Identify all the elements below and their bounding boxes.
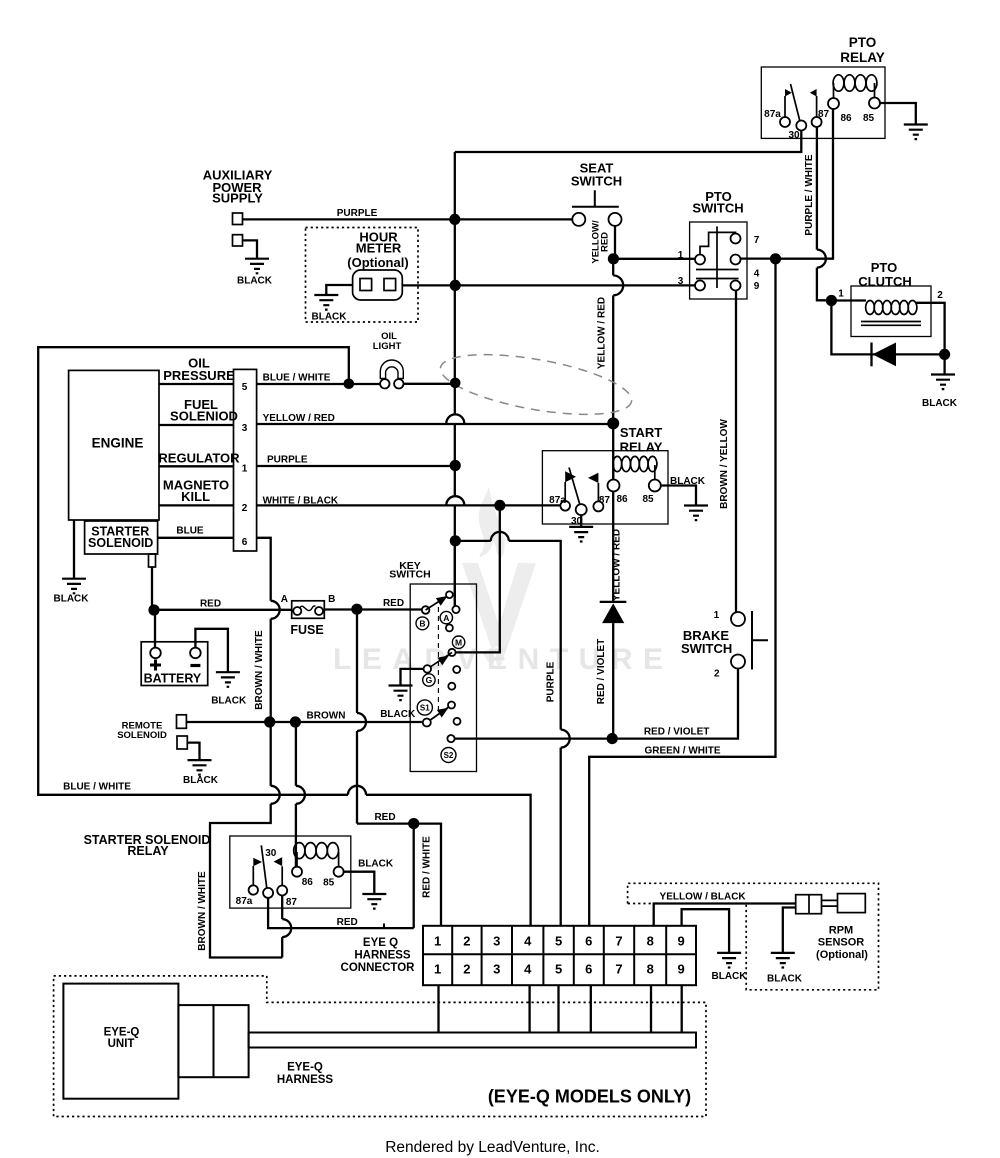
label BRAKE SWITCH: [681, 628, 732, 656]
start relay contact 87a: [560, 501, 570, 511]
svg-text:4: 4: [524, 961, 532, 976]
svg-text:2: 2: [463, 933, 470, 948]
label START RELAY: [620, 425, 663, 455]
svg-text:BLUE / WHITE: BLUE / WHITE: [63, 782, 131, 793]
key switch contact top A: [446, 591, 453, 598]
starter relay 87 flag: [281, 866, 283, 885]
label STARTER SOLENOID: [88, 525, 153, 550]
starter solenoid box: [85, 521, 158, 554]
svg-text:HARNESS: HARNESS: [354, 949, 411, 961]
svg-text:87: 87: [599, 495, 611, 506]
svg-text:3: 3: [678, 276, 684, 287]
key switch contact G: [424, 665, 432, 673]
wire purple top feed to PTO relay 30: [455, 131, 802, 153]
start relay armature: [569, 468, 580, 505]
starter relay contact 30: [263, 888, 273, 898]
svg-text:87: 87: [818, 109, 830, 120]
EYEQ models dotted box: [54, 976, 706, 1117]
svg-text:1: 1: [838, 289, 844, 300]
svg-text:YELLOW / RED: YELLOW / RED: [612, 529, 623, 601]
svg-text:LIGHT: LIGHT: [373, 341, 402, 352]
RPM sensor body: [838, 894, 866, 913]
label REMOTE SOLENOID: [117, 720, 167, 741]
svg-text:SWITCH: SWITCH: [692, 201, 743, 216]
svg-text:RED: RED: [337, 917, 358, 928]
wire seat switch down to node: [613, 226, 623, 424]
svg-text:G: G: [426, 675, 433, 685]
wire PTO4 node green/white feed down: [589, 259, 775, 926]
battery box: [141, 642, 208, 686]
key switch arrow G-M: [427, 652, 452, 669]
svg-text:BLACK: BLACK: [183, 775, 219, 786]
key switch circled S2: [441, 748, 456, 763]
svg-text:RED: RED: [374, 812, 395, 823]
svg-text:RED / VIOLET: RED / VIOLET: [596, 639, 607, 705]
svg-text:9: 9: [677, 961, 684, 976]
wire node to PTO switch pin 1: [613, 258, 695, 260]
starter relay coil terminal 85: [334, 867, 344, 877]
svg-text:RPM: RPM: [829, 925, 853, 937]
wire clutch pin2: [916, 303, 945, 355]
svg-text:3: 3: [493, 933, 500, 948]
ground RPM sensor: [771, 953, 795, 968]
node battery red junction: [148, 604, 159, 615]
key switch contact small below A: [446, 624, 453, 631]
battery + sign: [150, 660, 161, 671]
wire purple into key A contact: [454, 546, 456, 606]
starter relay contact 87: [277, 886, 287, 896]
svg-text:BLACK: BLACK: [312, 312, 348, 323]
svg-text:A: A: [443, 613, 449, 623]
PTO clutch box: [851, 286, 931, 337]
key switch contact S1 top: [448, 702, 455, 709]
PTO switch step link: [700, 232, 736, 254]
svg-text:BLACK: BLACK: [358, 858, 394, 869]
svg-text:CLUTCH: CLUTCH: [858, 274, 911, 289]
hour meter pin square right: [384, 279, 396, 291]
label EYE-Q UNIT: [104, 1026, 140, 1050]
svg-text:87a: 87a: [549, 495, 566, 506]
svg-text:85: 85: [323, 878, 335, 889]
svg-text:EYE Q: EYE Q: [363, 937, 398, 949]
svg-text:RED: RED: [383, 598, 404, 609]
wire S2 to node: [455, 737, 613, 739]
PTO switch contact 1: [695, 255, 705, 265]
wire pin 9 to ground: [682, 909, 730, 953]
svg-text:85: 85: [863, 113, 875, 124]
starter relay coil terminal 86: [292, 867, 302, 877]
wire PTO switch pin 9 brown/yellow down to brake: [735, 291, 737, 613]
wire PTO relay 85 to ground: [880, 103, 916, 125]
svg-text:PURPLE / WHITE: PURPLE / WHITE: [804, 154, 815, 235]
key switch contact mid small: [448, 683, 455, 690]
svg-text:EYE-Q: EYE-Q: [104, 1026, 140, 1038]
svg-text:2: 2: [937, 290, 943, 301]
svg-text:PTO: PTO: [849, 35, 877, 50]
label EYE Q HARNESS CONNECTOR: [341, 937, 416, 974]
key switch contact S1: [423, 719, 431, 727]
svg-text:SOLENOID: SOLENOID: [117, 730, 167, 741]
PTO switch box: [690, 222, 747, 299]
svg-text:4: 4: [754, 269, 760, 280]
dashed ellipse callout: [436, 343, 636, 426]
svg-text:BROWN / YELLOW: BROWN / YELLOW: [719, 419, 730, 509]
node brown junction right: [290, 716, 301, 727]
PTO relay armature: [791, 84, 800, 121]
wire start relay 86 down yellow/red to diode: [612, 492, 614, 602]
start relay box: [542, 451, 668, 524]
PTO relay contact 87: [812, 117, 822, 127]
svg-text:2: 2: [242, 503, 248, 514]
svg-text:HARNESS: HARNESS: [277, 1074, 334, 1086]
PTO switch contact 7: [731, 234, 741, 244]
label STARTER SOLENOID RELAY: [84, 833, 211, 858]
wire diode down red/violet: [612, 623, 614, 739]
svg-text:1: 1: [434, 961, 441, 976]
key switch contact S2: [447, 735, 454, 742]
starter relay contact 87a: [249, 885, 258, 894]
node clutch pin1 junction: [826, 295, 837, 306]
svg-text:86: 86: [616, 494, 628, 505]
wire purple to PTO switch pin 3: [455, 284, 695, 286]
svg-text:RELAY: RELAY: [840, 50, 885, 65]
svg-text:S2: S2: [444, 751, 454, 760]
svg-text:BLACK: BLACK: [670, 476, 706, 487]
svg-text:BLACK: BLACK: [54, 593, 90, 604]
svg-text:1: 1: [714, 610, 720, 621]
svg-text:1: 1: [434, 933, 441, 948]
ground PTO relay: [904, 125, 928, 140]
svg-text:SOLENIOD: SOLENIOD: [170, 408, 238, 423]
svg-text:BATTERY: BATTERY: [144, 672, 202, 686]
svg-text:3: 3: [242, 423, 248, 434]
wire brake pin2 down to red/violet: [612, 669, 738, 739]
hour meter connector body: [353, 270, 403, 300]
svg-text:PURPLE: PURPLE: [546, 661, 557, 702]
wire oil light to purple vertical: [404, 383, 456, 385]
svg-text:SENSOR: SENSOR: [818, 937, 865, 949]
oil light terminals: [380, 379, 389, 388]
svg-text:BLACK: BLACK: [237, 276, 273, 287]
wire engine loop: top edge, left edge, bottom blue/white with hops: [38, 347, 530, 926]
aux power terminal 2: [233, 235, 243, 246]
label KEY SWITCH: [389, 560, 430, 581]
svg-text:9: 9: [677, 933, 684, 948]
svg-text:BLACK: BLACK: [767, 974, 803, 985]
label PTO RELAY: [840, 35, 885, 65]
svg-text:RED / VIOLET: RED / VIOLET: [644, 727, 710, 738]
PTO relay contact 87a: [780, 117, 790, 127]
node purple/hour meter junction: [450, 280, 461, 291]
key switch circled B: [416, 617, 429, 630]
svg-text:ENGINE: ENGINE: [92, 436, 144, 451]
oil light horseshoe: [380, 360, 403, 379]
node clutch ground junction: [939, 349, 950, 360]
battery + terminal: [150, 648, 161, 659]
svg-text:SWITCH: SWITCH: [389, 569, 430, 581]
svg-text:5: 5: [555, 933, 562, 948]
node start relay 86 junction: [607, 417, 619, 429]
PTO switch center line: [716, 226, 718, 288]
node seat/PTO1 junction: [608, 253, 619, 264]
svg-text:S1: S1: [420, 704, 430, 713]
wire battery + up: [154, 610, 156, 648]
key switch arrow S1: [427, 705, 452, 723]
svg-text:BLACK: BLACK: [380, 709, 416, 720]
wire pin1 purple right: [257, 465, 456, 467]
wire purple main vertical with hops: [446, 152, 464, 606]
wire PTO relay 86 down: [776, 109, 834, 259]
svg-text:BROWN / WHITE: BROWN / WHITE: [254, 630, 265, 710]
svg-text:YELLOW / RED: YELLOW / RED: [597, 297, 608, 369]
start relay coil terminal 85: [649, 480, 661, 492]
svg-text:KILL: KILL: [181, 489, 210, 504]
PTO switch contact 3: [695, 281, 705, 291]
svg-text:BLACK: BLACK: [922, 398, 958, 409]
svg-text:METER: METER: [356, 241, 402, 256]
watermark logo flame: [479, 487, 505, 557]
wire remote solenoid brown: [186, 721, 422, 723]
battery - terminal: [190, 648, 201, 659]
fuse element: [300, 606, 316, 611]
svg-text:7: 7: [754, 235, 760, 246]
svg-text:5: 5: [242, 382, 248, 393]
svg-text:5: 5: [555, 961, 562, 976]
node aux purple junction: [449, 214, 460, 225]
seat switch actuator bar: [572, 190, 619, 207]
wire G to ground: [401, 669, 424, 686]
wire yellow/black to pin 8: [654, 904, 796, 926]
node purple pin1 junction: [450, 460, 461, 471]
svg-text:YELLOW / RED: YELLOW / RED: [263, 413, 335, 424]
svg-text:(Optional): (Optional): [816, 949, 868, 961]
label SEAT SWITCH: [571, 161, 622, 189]
key switch circled S1: [417, 700, 432, 715]
svg-text:BLUE / WHITE: BLUE / WHITE: [263, 372, 331, 383]
wire red battery to fuse: [154, 609, 292, 611]
ground key G: [389, 686, 413, 701]
wire PTO switch pin 4 to node: [741, 257, 834, 259]
wire pin5 blue/white right: [257, 383, 380, 385]
wire start relay 30 to ground: [580, 515, 582, 527]
svg-text:RELAY: RELAY: [127, 844, 169, 858]
key switch contact right small: [454, 718, 461, 725]
svg-text:RELAY: RELAY: [620, 440, 663, 455]
svg-text:2: 2: [714, 669, 720, 680]
label AUXILIARY POWER SUPPLY: [203, 167, 273, 205]
RPM sensor connector body: [796, 895, 822, 914]
remote solenoid terminal 1: [177, 715, 187, 729]
EYE-Q unit connector block: [178, 1005, 248, 1077]
svg-text:87: 87: [286, 897, 298, 908]
diode start circuit: [600, 601, 627, 603]
ground starter relay: [362, 894, 386, 909]
EYE Q connector box: [423, 926, 696, 985]
wire starter relay 30 red out: [268, 898, 414, 928]
node fuse B junction: [351, 604, 362, 615]
key switch contact M: [448, 649, 455, 656]
EYE Q connector numbers row 2: [434, 961, 685, 976]
wire aux purple to junction: [243, 218, 455, 220]
wire hour meter to purple junction: [402, 284, 455, 286]
wire starter solenoid to battery node: [151, 567, 153, 610]
ground pin 9: [717, 953, 741, 968]
key switch contact B: [422, 606, 430, 614]
svg-text:SOLENOID: SOLENOID: [88, 536, 153, 550]
key switch contact right of G: [453, 666, 460, 673]
svg-text:RED: RED: [600, 232, 611, 252]
battery - sign: [190, 664, 200, 667]
PTO relay 87 flag: [816, 96, 818, 117]
wire pin6 blue right and down: [210, 538, 282, 958]
engine box: [69, 370, 159, 520]
svg-text:FUSE: FUSE: [290, 623, 323, 637]
svg-text:BROWN / WHITE: BROWN / WHITE: [197, 871, 208, 951]
wire start relay 85 to ground: [661, 486, 696, 506]
label RPM SENSOR (Optional): [816, 925, 868, 961]
wire white/black M branch down: [456, 505, 500, 652]
svg-text:1: 1: [242, 464, 248, 475]
wire clutch to ground: [943, 354, 945, 374]
key switch box: [410, 584, 476, 772]
svg-text:A: A: [281, 594, 288, 605]
key switch circled M: [452, 636, 464, 648]
svg-text:86: 86: [302, 877, 314, 888]
wire PTO relay 87 purple/white down with hop: [817, 127, 826, 300]
svg-text:PURPLE: PURPLE: [267, 454, 308, 465]
key switch circled A: [440, 611, 452, 623]
node blue/white right junction: [450, 378, 461, 389]
svg-text:PRESSURE: PRESSURE: [163, 368, 235, 383]
wire red/white drop: [413, 824, 415, 929]
wire fuel solenoid: [159, 424, 234, 426]
starter relay armature: [261, 845, 267, 888]
svg-text:BLACK: BLACK: [712, 971, 748, 982]
ground start relay 85: [684, 506, 708, 521]
svg-text:LEADVENTURE: LEADVENTURE: [333, 643, 674, 676]
label HOUR METER (Optional): [347, 230, 408, 270]
PTO relay coil: [833, 75, 877, 99]
RPM dotted box L-shape: [628, 883, 879, 990]
wire engine ground: [73, 520, 75, 579]
svg-text:86: 86: [840, 113, 852, 124]
svg-text:PURPLE: PURPLE: [337, 208, 378, 219]
wire clutch pin1: [831, 299, 866, 301]
svg-text:2: 2: [463, 961, 470, 976]
wire blue branch with hop to purple drop: [455, 532, 569, 926]
key switch circled G: [423, 674, 435, 686]
wire blue starter solenoid to pin6: [158, 537, 234, 539]
node blue/white left junction: [344, 379, 355, 390]
wire starter relay 87 down with hop: [282, 896, 291, 958]
watermark logo V: [462, 563, 536, 670]
PTO relay contact 30: [796, 121, 806, 131]
ground engine: [62, 579, 86, 594]
starter relay coil: [294, 843, 339, 867]
start relay 87 flag: [597, 483, 599, 501]
starter relay 87a flag: [252, 866, 254, 885]
wire remote solenoid to ground: [187, 743, 199, 761]
svg-text:REGULATOR: REGULATOR: [158, 450, 240, 465]
svg-text:START: START: [620, 425, 662, 440]
label PTO SWITCH: [692, 189, 743, 216]
wire starter relay coil feed down: [296, 722, 305, 867]
svg-text:87a: 87a: [236, 896, 253, 907]
wire pin3 yellow/red to start relay: [257, 423, 614, 425]
svg-text:PTO: PTO: [871, 260, 898, 275]
wire brown hop over fuse line: [357, 609, 366, 823]
wire aux black to ground: [243, 240, 258, 258]
svg-text:(EYE-Q MODELS ONLY): (EYE-Q MODELS ONLY): [488, 1087, 691, 1107]
start relay coil: [613, 456, 657, 479]
svg-text:7: 7: [615, 961, 622, 976]
svg-text:M: M: [455, 637, 462, 647]
node blue branch junction: [450, 535, 461, 546]
ground clutch: [931, 375, 955, 390]
PTO switch bars: [696, 270, 739, 279]
svg-text:BLACK: BLACK: [211, 696, 247, 707]
svg-text:Rendered by LeadVenture, Inc.: Rendered by LeadVenture, Inc.: [385, 1139, 600, 1156]
svg-text:9: 9: [754, 281, 760, 292]
aux power terminal 1: [233, 213, 243, 225]
wire fuse B to key switch: [324, 608, 422, 610]
ground start relay 30: [569, 527, 593, 542]
hour meter dotted box: [306, 228, 419, 323]
svg-text:6: 6: [585, 961, 592, 976]
wire hour meter to ground: [326, 285, 352, 295]
svg-text:BLUE: BLUE: [176, 525, 204, 536]
brake switch contact 2: [731, 655, 745, 669]
wire regulator: [159, 465, 234, 467]
wires connector bottom row to harness: [439, 985, 682, 1032]
svg-text:B: B: [419, 619, 425, 629]
key switch arrow B-A: [426, 595, 450, 610]
svg-text:8: 8: [647, 961, 654, 976]
wire starter relay 85 to ground: [344, 872, 375, 894]
PTO relay coil terminal 86: [828, 98, 839, 109]
svg-text:RED / WHITE: RED / WHITE: [422, 836, 433, 898]
start relay contact 30: [576, 504, 587, 515]
svg-text:30: 30: [788, 130, 800, 141]
PTO switch contact 4: [731, 255, 741, 265]
ground hour meter: [314, 295, 338, 310]
svg-text:SWITCH: SWITCH: [571, 174, 622, 189]
engine connector strip: [234, 369, 257, 551]
PTO relay coil terminal 85: [869, 98, 880, 109]
wire clutch diode branch: [831, 301, 944, 355]
svg-text:EYE-Q: EYE-Q: [287, 1061, 323, 1073]
wire yellow/red node to coil 86: [612, 423, 614, 479]
starter relay box: [230, 836, 351, 908]
svg-text:7: 7: [615, 933, 622, 948]
start relay coil terminal 86: [608, 480, 620, 492]
brake switch actuator: [752, 611, 768, 670]
svg-text:WHITE / BLACK: WHITE / BLACK: [263, 495, 339, 506]
tick on red wire: [383, 924, 385, 929]
svg-text:YELLOW / BLACK: YELLOW / BLACK: [660, 892, 747, 903]
svg-text:85: 85: [642, 494, 654, 505]
PTO clutch core lines: [861, 322, 921, 326]
svg-text:SUPPLY: SUPPLY: [212, 191, 263, 206]
ground remote solenoid: [188, 760, 212, 775]
EYE Q connector numbers row 1: [434, 933, 685, 948]
node red/white junction: [408, 818, 419, 829]
key switch dashed line: [437, 607, 439, 712]
svg-text:30: 30: [265, 848, 277, 859]
wire battery - to ground: [195, 629, 228, 672]
PTO relay box: [761, 67, 885, 138]
svg-text:GREEN / WHITE: GREEN / WHITE: [644, 746, 720, 757]
